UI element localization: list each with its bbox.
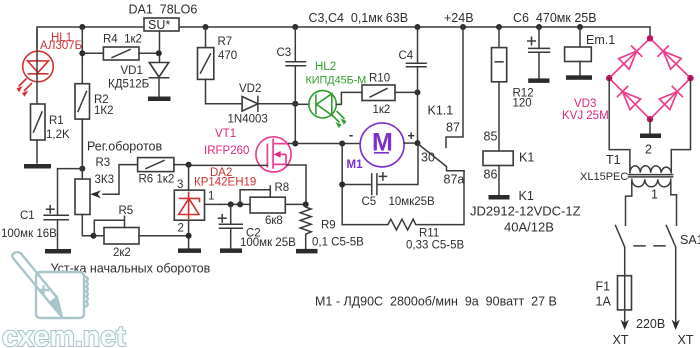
svg-text:КД512Б: КД512Б — [108, 79, 149, 91]
svg-text:DA1 78LO6: DA1 78LO6 — [129, 3, 198, 17]
capacitor C4 — [399, 27, 427, 143]
resistor R11 — [342, 171, 464, 252]
electromagnet Em.1 — [565, 27, 616, 75]
svg-text:R11: R11 — [419, 228, 439, 240]
svg-text:R6 1к2: R6 1к2 — [139, 174, 175, 186]
svg-text:Em.1: Em.1 — [586, 33, 615, 47]
relay contact K1.1 — [418, 27, 465, 187]
svg-text:+24В: +24В — [444, 11, 474, 25]
ground under K1 — [489, 195, 510, 200]
svg-text:XT: XT — [678, 333, 694, 347]
svg-text:IRFP260: IRFP260 — [204, 145, 249, 157]
node R6/DA2/gate dot — [186, 162, 192, 168]
svg-text:cxem.net: cxem.net — [2, 321, 126, 348]
svg-text:100мк 16В: 100мк 16В — [1, 228, 57, 240]
svg-text:VT1: VT1 — [215, 128, 236, 140]
svg-text:86: 86 — [484, 168, 498, 182]
switch SA1 — [616, 226, 700, 325]
svg-text:K1: K1 — [519, 189, 534, 203]
node C2 dot — [228, 201, 234, 207]
svg-text:C6 470мк 25В: C6 470мк 25В — [513, 11, 597, 25]
resistor R12 — [492, 27, 534, 151]
svg-text:R8: R8 — [275, 182, 290, 194]
node R8 wiper dot — [237, 201, 243, 207]
node C5 left dot — [339, 182, 345, 188]
svg-text:1N4003: 1N4003 — [228, 114, 268, 126]
svg-text:SA1: SA1 — [680, 233, 700, 247]
svg-text:VD3: VD3 — [574, 98, 596, 110]
svg-text:C4: C4 — [399, 50, 414, 62]
svg-text:40A/12B: 40A/12B — [504, 220, 554, 235]
svg-text:2: 2 — [178, 223, 184, 235]
svg-text:6к8: 6к8 — [265, 215, 283, 227]
svg-text:+: + — [408, 129, 415, 143]
svg-text:F1: F1 — [596, 280, 611, 294]
ground under bridge — [649, 119, 651, 133]
svg-text:Уст-ка начальных оборотов: Уст-ка начальных оборотов — [51, 262, 211, 276]
node DA2 anode dot — [186, 233, 192, 239]
resistor R2 — [75, 84, 114, 119]
capacitor C2 — [219, 204, 297, 249]
IC DA2 KR142EN19 — [174, 165, 256, 249]
capacitor C5 — [342, 143, 435, 225]
svg-text:30: 30 — [421, 151, 435, 165]
svg-text:1к2: 1к2 — [373, 104, 391, 116]
potentiometer R5 — [94, 205, 188, 259]
svg-text:Рег.оборотов: Рег.оборотов — [87, 140, 162, 154]
svg-text:M1: M1 — [347, 159, 364, 171]
diode VD2 1N4003 — [228, 83, 296, 126]
watermark cxem.net logo — [12, 252, 87, 318]
fuse F1 — [596, 276, 632, 324]
svg-text:HL2: HL2 — [315, 61, 336, 73]
transistor VT1 IRFP260 — [189, 128, 306, 205]
svg-text:VD1: VD1 — [121, 65, 143, 77]
svg-text:R5: R5 — [119, 205, 134, 217]
wire R2 branch vertical — [81, 27, 83, 179]
node C1 tap dot — [79, 166, 85, 172]
wire top +24V rail — [37, 27, 650, 48]
terminal arrow left XT — [621, 320, 629, 331]
resistor R4 — [82, 34, 158, 61]
svg-text:1: 1 — [651, 188, 658, 202]
svg-text:120: 120 — [513, 98, 532, 110]
svg-text:100мк 25В: 100мк 25В — [240, 237, 296, 249]
svg-text:K1.1: K1.1 — [428, 104, 454, 118]
svg-text:JD2912-12VDC-1Z: JD2912-12VDC-1Z — [470, 204, 581, 219]
node R10/C4 dot — [415, 89, 421, 95]
svg-text:R1: R1 — [49, 115, 64, 127]
ground under R1 — [24, 164, 51, 169]
LED HL2 — [295, 61, 366, 128]
node VD1 junction dot — [156, 50, 162, 56]
svg-text:АЛ307Б: АЛ307Б — [40, 40, 82, 52]
IC DA1 78L06 box SU* — [129, 3, 198, 63]
svg-text:C1: C1 — [20, 210, 35, 222]
svg-text:470: 470 — [218, 50, 237, 62]
svg-text:0,33 С5-5В: 0,33 С5-5В — [406, 240, 465, 252]
capacitor C6 — [513, 11, 597, 78]
wire drain column — [294, 104, 296, 144]
LED HL1 — [17, 29, 83, 104]
svg-text:87a: 87a — [444, 173, 465, 187]
svg-text:KVJ 25M: KVJ 25M — [562, 110, 609, 122]
svg-text:R3: R3 — [96, 157, 111, 169]
svg-text:3: 3 — [177, 179, 183, 191]
node R9 top dot — [303, 201, 309, 207]
svg-text:1К2: 1К2 — [94, 105, 114, 117]
relay coil K1 — [483, 130, 534, 196]
svg-text:1,2K: 1,2K — [46, 129, 70, 141]
svg-text:220В: 220В — [636, 317, 665, 331]
svg-text:SU*: SU* — [148, 18, 170, 32]
svg-text:М1 - ЛД90С 2800об/мин 9а 90: М1 - ЛД90С 2800об/мин 9а 90ватт 27 В — [315, 295, 557, 309]
node motor right / blade pivot dot — [415, 140, 421, 146]
svg-text:1A: 1A — [596, 295, 612, 309]
ground bar under C6 — [528, 78, 549, 83]
svg-text:XT: XT — [613, 333, 629, 347]
svg-text:R10: R10 — [369, 73, 390, 85]
svg-text:0,1 С5-5В: 0,1 С5-5В — [312, 237, 364, 249]
svg-text:C3,C4 0,1мк 63В: C3,C4 0,1мк 63В — [309, 11, 409, 25]
potentiometer R3 — [75, 119, 114, 236]
wire pin1 row — [219, 203, 305, 205]
ground under Em.1 — [566, 75, 592, 80]
diode VD1 — [108, 63, 169, 97]
svg-text:-: - — [349, 128, 353, 142]
svg-text:2: 2 — [645, 143, 652, 157]
resistor R9 — [300, 204, 364, 249]
node VD2/C3/HL2 dot — [292, 101, 298, 107]
svg-text:87: 87 — [446, 121, 460, 135]
svg-text:2к2: 2к2 — [113, 247, 131, 259]
svg-text:T1: T1 — [606, 153, 621, 167]
svg-text:R4 1к2: R4 1к2 — [103, 34, 142, 46]
ground under C2 — [220, 248, 242, 253]
node R4 tap dot — [79, 50, 85, 56]
resistor R7 — [198, 27, 243, 104]
svg-text:3К3: 3К3 — [95, 174, 115, 186]
node VT1 drain dot — [292, 141, 298, 147]
svg-text:КР142ЕН19: КР142ЕН19 — [194, 177, 256, 189]
terminal arrow right XT — [672, 320, 680, 331]
svg-text:КИПД45Б-М: КИПД45Б-М — [306, 75, 367, 87]
trimmer R8 — [240, 182, 289, 227]
svg-text:R9: R9 — [321, 220, 336, 232]
wire drain to motor — [295, 143, 360, 145]
ground under R9 — [296, 249, 318, 254]
node motor left dot — [339, 141, 345, 147]
svg-text:XL15PEC: XL15PEC — [580, 171, 628, 183]
capacitor C3 — [277, 27, 306, 104]
svg-text:VD2: VD2 — [239, 83, 261, 95]
svg-text:85: 85 — [484, 130, 498, 144]
svg-text:K1: K1 — [519, 151, 534, 165]
node R5 wiper dot — [91, 233, 97, 239]
resistor R10 — [362, 73, 418, 117]
capacitor C1 — [1, 169, 82, 249]
svg-text:C5: C5 — [362, 196, 377, 208]
node rail junction dots — [79, 24, 583, 30]
diode bridge VD3 — [562, 35, 694, 122]
ground under VD1 — [148, 97, 171, 102]
ground under DA2 — [178, 248, 201, 253]
resistor R1 — [31, 104, 70, 163]
svg-text:1: 1 — [208, 191, 214, 203]
svg-text:R7: R7 — [218, 36, 233, 48]
ground under C1 — [45, 249, 71, 254]
transformer T1 — [580, 78, 691, 225]
resistor R6 — [90, 158, 188, 199]
svg-text:C3: C3 — [277, 47, 292, 59]
motor M1 — [347, 123, 418, 171]
svg-text:10мк25В: 10мк25В — [389, 196, 436, 208]
